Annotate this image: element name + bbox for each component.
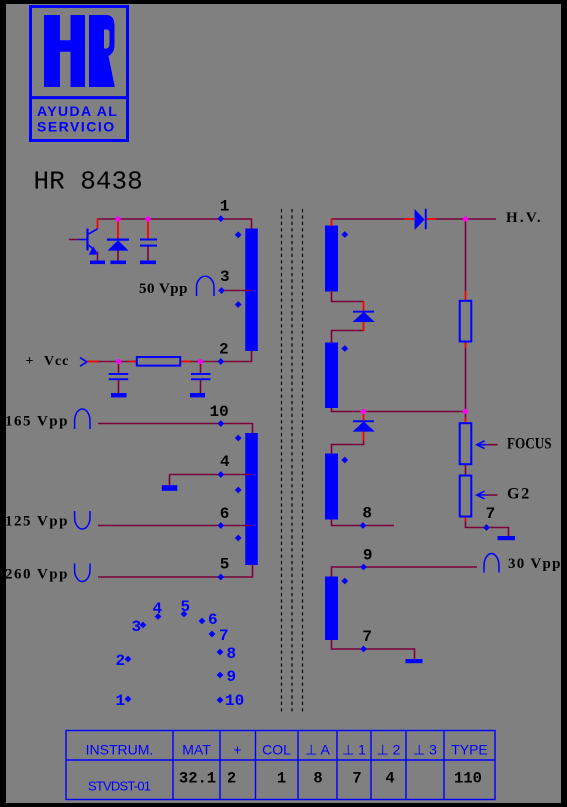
svg-text:10: 10	[210, 403, 229, 421]
svg-text:AYUDA AL: AYUDA AL	[37, 103, 118, 119]
svg-text:5: 5	[181, 598, 191, 616]
svg-text:7: 7	[486, 505, 496, 523]
svg-text:1: 1	[277, 770, 286, 788]
svg-text:+: +	[233, 742, 241, 758]
svg-text:⊥ A: ⊥ A	[305, 742, 330, 758]
svg-text:4: 4	[385, 770, 394, 788]
svg-text:7: 7	[352, 770, 361, 788]
svg-text:10: 10	[225, 692, 244, 710]
svg-text:4: 4	[220, 453, 230, 471]
svg-text:G2: G2	[507, 486, 531, 503]
svg-text:2: 2	[219, 341, 229, 359]
svg-text:110: 110	[454, 770, 482, 788]
svg-text:165 Vpp: 165 Vpp	[5, 414, 69, 430]
svg-text:6: 6	[220, 505, 230, 523]
svg-text:8: 8	[227, 645, 237, 663]
svg-text:⊥ 2: ⊥ 2	[377, 742, 401, 758]
svg-text:125 Vpp: 125 Vpp	[5, 514, 69, 530]
svg-text:3: 3	[132, 618, 142, 636]
svg-text:+: +	[26, 354, 34, 369]
svg-text:9: 9	[363, 547, 373, 565]
svg-text:INSTRUM.: INSTRUM.	[86, 742, 154, 758]
svg-text:6: 6	[208, 611, 218, 629]
svg-text:1: 1	[116, 692, 126, 710]
svg-text:3: 3	[220, 268, 230, 286]
svg-text:8: 8	[313, 770, 322, 788]
svg-text:2: 2	[227, 770, 236, 788]
svg-text:30 Vpp: 30 Vpp	[508, 556, 562, 572]
svg-text:50 Vpp: 50 Vpp	[139, 281, 188, 297]
svg-text:FOCUS: FOCUS	[507, 436, 552, 453]
svg-text:COL: COL	[262, 742, 291, 758]
svg-text:⊥ 1: ⊥ 1	[342, 742, 366, 758]
svg-text:Vcc: Vcc	[44, 354, 69, 369]
svg-text:8: 8	[362, 505, 372, 523]
svg-text:MAT: MAT	[182, 742, 211, 758]
svg-text:260 Vpp: 260 Vpp	[5, 567, 69, 583]
svg-text:HR 8438: HR 8438	[34, 167, 143, 197]
svg-text:⊥ 3: ⊥ 3	[413, 742, 437, 758]
svg-text:9: 9	[227, 668, 237, 686]
svg-text:7: 7	[219, 627, 229, 645]
svg-text:4: 4	[153, 600, 163, 618]
svg-text:7: 7	[362, 628, 372, 646]
svg-text:5: 5	[220, 556, 230, 574]
svg-text:1: 1	[220, 198, 230, 216]
svg-text:TYPE: TYPE	[451, 742, 488, 758]
svg-text:SERVICIO: SERVICIO	[37, 119, 116, 135]
svg-text:2: 2	[116, 652, 126, 670]
svg-text:STVDST-01: STVDST-01	[88, 779, 151, 794]
svg-text:H.V.: H.V.	[506, 210, 543, 226]
svg-text:32.1: 32.1	[179, 770, 216, 788]
